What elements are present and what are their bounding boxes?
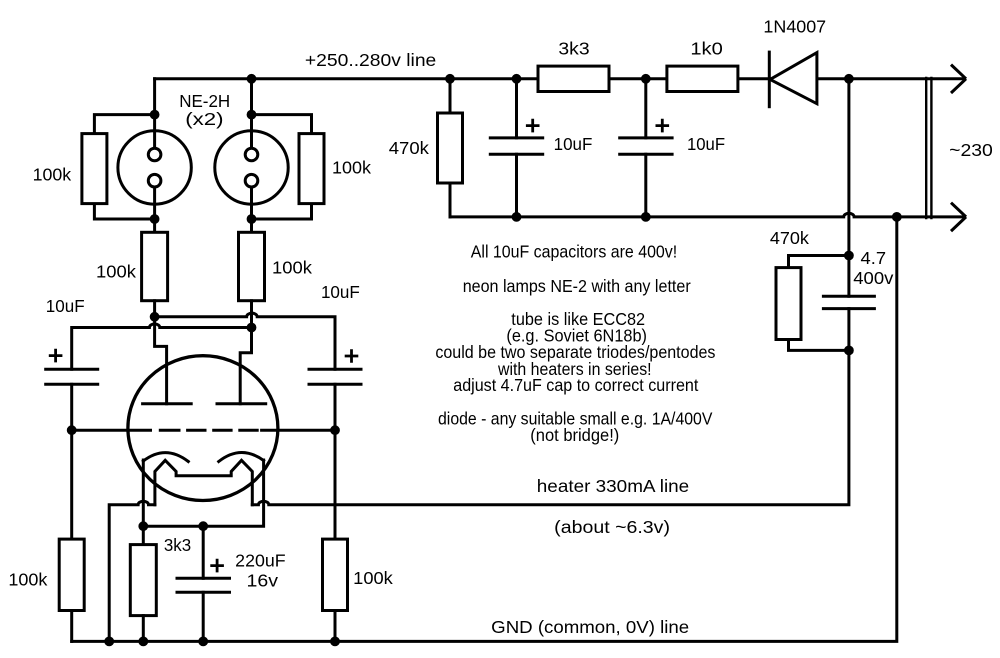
wire lamp1 top lead [153,79,156,148]
node grid2 junction [332,427,339,434]
node 220uF top junction [200,523,207,530]
mains arrow top [951,65,966,93]
svg-text:adjust 4.7uF cap to correct cu: adjust 4.7uF cap to correct current [453,375,698,395]
wire lamp1 bottom lead [153,187,156,232]
capacitor C1 10uF left bottom plate [46,383,98,386]
svg-text:neon lamps NE-2 with any lette: neon lamps NE-2 with any letter [463,276,691,296]
node C4 bottom junction [642,214,649,221]
neon lamp NE2 top electrode [245,148,258,161]
polarity plus C3 [526,119,540,133]
node 220uF ground junction [200,638,207,645]
svg-text:100k: 100k [8,570,47,590]
node lamp2 top junction [248,111,255,118]
svg-text:470k: 470k [770,228,810,248]
node 4.7uF top junction [846,252,853,259]
svg-text:1N4007: 1N4007 [763,17,826,37]
resistor R4 100k anode2 [239,232,265,300]
svg-text:All 10uF capacitors are 400v!: All 10uF capacitors are 400v! [471,241,677,261]
wire coupling anode2 to C1 with hop [72,324,252,369]
svg-text:100k: 100k [33,164,72,184]
capacitor C3 plates [490,138,542,154]
wire coupling anode1 to C2 with hop [155,313,335,369]
neon lamp NE2 bottom electrode [245,174,258,187]
tube V1 cathode1 arc [143,453,188,462]
capacitor C4 plates [620,138,672,154]
wire 220uF top lead [202,526,205,578]
node lamp1 top junction [151,111,158,118]
tube V1 grid line solid right [262,429,335,432]
wire 220uF to ground [202,592,205,641]
resistor R7 3k3 cathode [130,545,156,616]
neon lamp NE1 top electrode [148,148,161,161]
wire anode2 column [240,301,251,404]
svg-text:(not bridge!): (not bridge!) [530,425,619,445]
svg-text:(about ~6.3v): (about ~6.3v) [554,517,670,537]
neon lamp NE1 bottom electrode [148,174,161,187]
wire diode output down to C6 [847,79,850,256]
node lamp2 top line junction [248,75,255,82]
svg-text:10uF: 10uF [554,134,593,154]
tube V1 anode2 plate bar [217,402,266,405]
node anode2 junction [248,324,255,331]
capacitor C5 220uF top plate [177,577,230,580]
wire lamp2 top lead [250,79,253,148]
node anode1 junction [151,313,158,320]
resistor R5 100k grid1 leak [59,539,84,610]
node cathode1 junction [140,523,147,530]
svg-text:NE-2H: NE-2H [179,91,230,111]
svg-text:(x2): (x2) [185,109,223,129]
capacitor C2 10uF right bottom plate [309,383,361,386]
svg-text:10uF: 10uF [321,282,360,302]
diode D1 1N4007 triangle [770,53,817,104]
svg-text:1k0: 1k0 [690,39,722,59]
capacitor C4 10uF filter2 leads [644,79,647,217]
resistor R2 100k lamp2 parallel [299,134,324,204]
diode D1 1N4007 cathode bar [768,52,771,107]
svg-text:+250..280v line: +250..280v line [305,50,436,70]
svg-text:3k3: 3k3 [164,535,191,555]
neon lamp NE1 envelope [118,131,191,204]
resistor R10 470k bleeder [438,113,463,183]
tube V1 grid line solid left [72,429,151,432]
capacitor C2 10uF right top plate [309,368,361,371]
capacitor C5 220uF bottom plate [177,591,230,594]
svg-text:100k: 100k [96,262,136,282]
svg-text:heater 330mA line: heater 330mA line [537,476,689,496]
wire anode1 column [155,301,167,404]
tube V1 cathode2 arc [219,452,264,461]
tube V1 envelope [128,356,278,501]
tube V1 anode1 plate bar [143,402,192,405]
polarity plus C2 [345,349,359,363]
node heater-left ground junction [106,638,113,645]
wire grid2 column down [334,430,337,539]
resistor R3 100k anode1 [142,232,168,300]
node C4 top junction [642,75,649,82]
svg-text:16v: 16v [247,571,279,591]
node C3 bottom junction [513,214,520,221]
node grid1 junction [68,427,75,434]
capacitor C1 10uF left top plate [46,368,98,371]
resistor R9 1k0 B+ filter [667,66,738,91]
wire C1 to grid1 [70,384,73,430]
svg-text:10uF: 10uF [687,134,725,154]
svg-text:470k: 470k [389,138,430,158]
wire R7 to ground [142,616,145,642]
wire C2 to grid2 [334,384,337,430]
node C3 top junction [513,75,520,82]
polarity plus C1 [49,349,63,363]
wire R6 to ground [334,611,337,642]
svg-text:3k3: 3k3 [558,39,589,59]
svg-text:220uF: 220uF [235,551,285,571]
wire lamp2 side loop [252,115,312,219]
polarity plus C5 [210,559,224,573]
wire +250v top line [155,77,963,80]
wire 470k bottom lead [449,183,452,217]
wire GND line [72,217,897,642]
wire C6 gap cover [847,256,850,351]
wire cathode bus [143,460,263,526]
wire grid1 column down [70,430,73,539]
node 470k top junction [447,75,454,82]
polarity plus C4 [656,119,670,133]
resistor R1 100k lamp1 parallel [82,134,107,204]
wire heater left to ground with hop [109,501,155,641]
svg-text:GND (common, 0V) line: GND (common, 0V) line [491,617,689,637]
neon lamp NE2 envelope [215,131,288,204]
tube V1 heater filament [155,460,252,505]
svg-text:100k: 100k [272,257,312,277]
resistor R11 470k dropper [776,268,801,340]
node 4.7uF bottom junction [846,347,853,354]
wire lamp2 bottom lead [250,187,253,232]
wire rectifier bottom line with hop [450,213,963,217]
svg-text:~230: ~230 [949,140,993,160]
mains arrow bottom [951,203,966,231]
capacitor C3 10uF filter1 leads [515,79,518,217]
svg-text:100k: 100k [353,568,393,588]
node R7 ground junction [140,638,147,645]
node diode output junction [846,75,853,82]
capacitor C6 4.7uF plates [823,296,874,308]
wire 470k top lead [449,79,452,113]
node lamp2 bottom junction [248,216,255,223]
svg-text:400v: 400v [853,268,894,288]
wire heater 330mA line with hop [252,350,849,504]
wire cathode1 lead [142,460,145,545]
mains connector double line [926,78,931,218]
node lamp1 bottom junction [151,216,158,223]
resistor R8 3k3 B+ filter [538,66,609,91]
wire 470k dropper loop [789,256,849,351]
tube V1 grid dashes [160,429,257,432]
svg-text:10uF: 10uF [46,296,85,316]
svg-text:4.7: 4.7 [861,248,887,268]
wire lamp1 side loop [94,115,154,219]
resistor R6 100k grid2 leak [323,539,348,610]
node R6 ground junction [332,638,339,645]
wire R5 to ground [70,611,73,642]
svg-text:100k: 100k [332,158,371,178]
node bottom line GND junction [893,214,900,221]
